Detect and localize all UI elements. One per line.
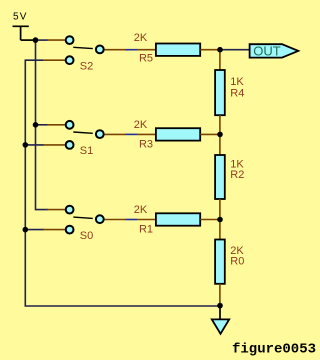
svg-text:2K: 2K (134, 204, 148, 216)
svg-text:R0: R0 (230, 255, 244, 267)
svg-text:R1: R1 (139, 224, 153, 236)
svg-text:S1: S1 (80, 145, 93, 157)
svg-text:figure0053: figure0053 (232, 342, 316, 358)
svg-text:2K: 2K (134, 119, 148, 131)
svg-text:2K: 2K (134, 32, 148, 44)
svg-text:R2: R2 (230, 169, 244, 181)
svg-text:5V: 5V (13, 12, 27, 23)
svg-text:R4: R4 (230, 88, 244, 100)
svg-text:S2: S2 (80, 60, 93, 72)
svg-text:R3: R3 (139, 138, 153, 150)
svg-text:R5: R5 (139, 53, 153, 65)
svg-text:1K: 1K (230, 76, 244, 88)
svg-text:OUT: OUT (253, 44, 281, 59)
svg-text:S0: S0 (80, 230, 93, 242)
